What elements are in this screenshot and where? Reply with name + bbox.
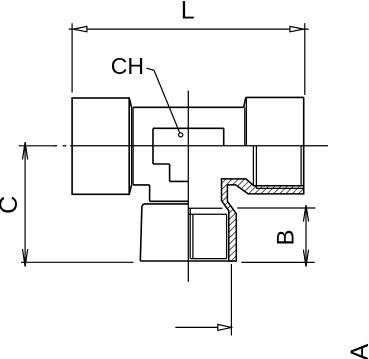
svg-text:B: B xyxy=(273,229,300,245)
svg-text:CH: CH xyxy=(111,53,144,79)
svg-text:C: C xyxy=(0,196,23,214)
svg-text:A: A xyxy=(346,343,369,359)
svg-text:L: L xyxy=(181,0,195,25)
